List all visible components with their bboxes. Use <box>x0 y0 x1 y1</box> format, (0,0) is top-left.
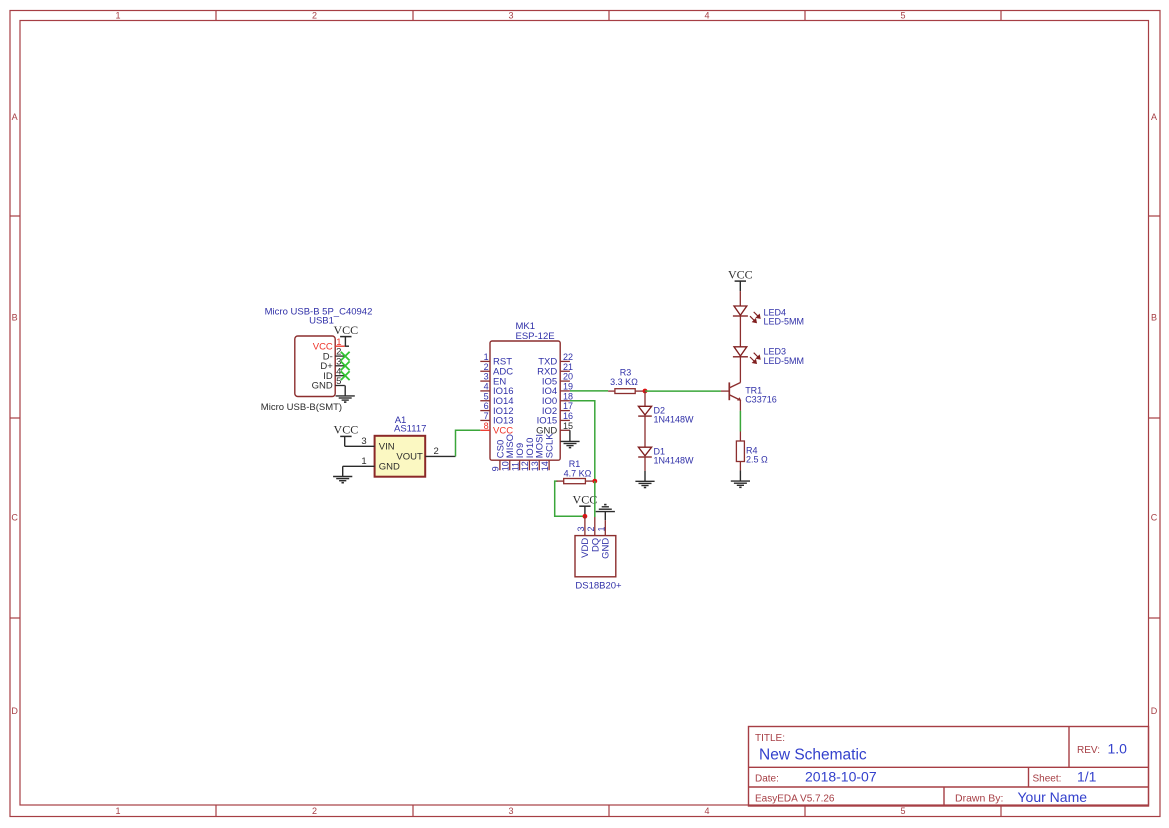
resistor R3 body <box>615 389 635 394</box>
wire emitter to R4 <box>739 411 741 432</box>
svg-text:Micro USB-B(SMT): Micro USB-B(SMT) <box>261 402 342 413</box>
LED LED4 <box>733 306 748 316</box>
MK1 pin 3 stub <box>480 380 490 382</box>
svg-text:VCC: VCC <box>333 323 358 337</box>
R4 top lead <box>739 432 741 442</box>
svg-text:1.0: 1.0 <box>1108 741 1128 757</box>
svg-text:EasyEDA V5.7.26: EasyEDA V5.7.26 <box>755 794 835 805</box>
svg-text:8: 8 <box>484 421 489 431</box>
MK1 pin 6 stub <box>480 410 490 412</box>
svg-text:2: 2 <box>586 526 596 531</box>
R4 bottom lead <box>739 462 741 471</box>
wire MK1 IO4 to R3 <box>570 390 608 392</box>
svg-text:2: 2 <box>312 11 317 21</box>
wire to ground <box>644 471 646 481</box>
transistor TR1 <box>729 382 741 400</box>
svg-text:D: D <box>11 706 18 716</box>
svg-text:2: 2 <box>434 446 439 457</box>
junction node R3 / D2 / TR1 base <box>643 389 648 394</box>
ground at D1 <box>635 481 654 487</box>
MK1 pin 9 stub <box>499 460 501 470</box>
wire ground to DS18B20 pin 1 <box>604 512 606 521</box>
wire junction to TR1 base <box>645 390 721 392</box>
resistor R4 body <box>736 441 744 462</box>
svg-text:LED-5MM: LED-5MM <box>764 317 805 327</box>
svg-text:5: 5 <box>484 391 489 401</box>
wire R1 left lead down to VDD node <box>555 481 585 516</box>
USB1 pin 3 no-connect cross <box>341 361 350 370</box>
svg-text:5: 5 <box>900 806 905 816</box>
MK1 pin 7 stub <box>480 419 490 421</box>
svg-text:5: 5 <box>336 376 341 387</box>
wire VCC flag stem to USB1 pin 1 <box>344 337 346 347</box>
svg-text:Sheet:: Sheet: <box>1033 773 1062 784</box>
wire TR1 emitter down <box>739 400 741 410</box>
svg-text:17: 17 <box>563 401 573 411</box>
module MK1 body <box>490 341 560 460</box>
svg-text:12: 12 <box>520 461 530 471</box>
svg-text:3: 3 <box>508 806 513 816</box>
svg-text:SCLK: SCLK <box>545 433 556 458</box>
svg-text:VCC: VCC <box>573 492 598 506</box>
svg-text:1: 1 <box>115 11 120 21</box>
svg-text:1/1: 1/1 <box>1077 769 1097 785</box>
svg-text:REV:: REV: <box>1077 745 1100 756</box>
svg-text:3: 3 <box>484 372 489 382</box>
svg-text:A: A <box>12 112 18 122</box>
svg-text:5: 5 <box>900 11 905 21</box>
svg-text:GND: GND <box>379 462 400 473</box>
svg-text:USB1: USB1 <box>309 315 334 326</box>
svg-text:1: 1 <box>115 806 120 816</box>
ground at MK1 pin 15 <box>560 441 579 447</box>
power flag VCC at USB1 pin 1 <box>333 323 358 337</box>
svg-text:2.5 Ω: 2.5 Ω <box>746 455 768 465</box>
svg-text:1: 1 <box>484 352 489 362</box>
junction node VDD <box>583 514 588 519</box>
wire DQ net down <box>594 481 596 517</box>
svg-text:1: 1 <box>361 456 366 467</box>
svg-text:7: 7 <box>484 411 489 421</box>
R3 left lead <box>608 390 615 392</box>
svg-text:19: 19 <box>563 382 573 392</box>
MK1 pin 16 stub <box>560 419 570 421</box>
svg-text:C: C <box>1151 513 1158 523</box>
svg-text:AS1117: AS1117 <box>394 424 426 435</box>
MK1 pin 19 stub <box>560 390 570 392</box>
svg-text:16: 16 <box>563 411 573 421</box>
MK1 pin 18 stub <box>560 400 570 402</box>
svg-text:3.3 KΩ: 3.3 KΩ <box>610 377 638 387</box>
svg-text:B: B <box>12 313 18 323</box>
svg-text:Date:: Date: <box>755 773 779 784</box>
wire LED4 to LED3 <box>739 316 741 347</box>
TR1 base stub <box>721 390 729 392</box>
svg-text:21: 21 <box>563 362 573 372</box>
MK1 pin 8 stub <box>480 429 490 431</box>
svg-text:3: 3 <box>508 11 513 21</box>
wire junction down to D2 <box>644 391 646 406</box>
sensor DS18B20 body <box>575 536 616 577</box>
LED4 light arrows <box>750 312 760 323</box>
MK1 pin 11 stub <box>519 460 521 470</box>
MK1 pin 12 stub <box>528 460 530 470</box>
MK1 pin 5 stub <box>480 400 490 402</box>
svg-text:15: 15 <box>563 421 573 431</box>
svg-text:4: 4 <box>484 382 489 392</box>
wire LED3 to TR1 collector <box>739 357 741 383</box>
svg-text:3: 3 <box>576 526 586 531</box>
LED3 light arrows <box>750 353 760 364</box>
wire MK1 pin 15 down <box>569 430 571 441</box>
svg-text:GND: GND <box>312 381 333 392</box>
wire D2 to D1 <box>644 416 646 447</box>
svg-text:4: 4 <box>704 806 709 816</box>
svg-text:1N4148W: 1N4148W <box>654 455 695 465</box>
svg-text:4: 4 <box>704 11 709 21</box>
wire down to ground <box>342 466 344 476</box>
svg-text:Your Name: Your Name <box>1018 789 1088 805</box>
MK1 pin 14 stub <box>548 460 550 470</box>
svg-text:TITLE:: TITLE: <box>755 733 785 744</box>
regulator A1 body <box>375 436 426 477</box>
ground at A1 GND <box>333 477 352 483</box>
DS18B20 pin 2 stub (DQ) <box>594 517 596 536</box>
svg-text:C33716: C33716 <box>745 395 777 405</box>
svg-text:D: D <box>1151 706 1158 716</box>
svg-text:14: 14 <box>540 461 550 471</box>
svg-text:VIN: VIN <box>379 442 395 453</box>
wire D1 down <box>644 457 646 471</box>
MK1 pin 21 stub <box>560 370 570 372</box>
MK1 pin 10 stub <box>509 460 511 470</box>
svg-text:C: C <box>11 513 18 523</box>
power flag VCC at A1 VIN <box>334 423 359 437</box>
wire stub right of USB1 pin 1 <box>345 345 349 347</box>
wire VCC stem to VDD node <box>584 506 586 516</box>
MK1 pin 2 stub <box>480 370 490 372</box>
wire VCC to LED4 <box>739 291 741 306</box>
DS18B20 pin 3 stub (VDD) <box>584 516 586 535</box>
wire VCC to A1 pin 3 <box>345 445 375 447</box>
svg-text:1N4148W: 1N4148W <box>654 415 695 425</box>
R1 left lead <box>557 480 564 482</box>
svg-text:3: 3 <box>361 436 366 447</box>
ground at R4 <box>731 481 750 487</box>
wire R4 to ground <box>739 470 741 481</box>
power flag VCC at LED4 <box>728 267 753 281</box>
svg-text:VOUT: VOUT <box>396 452 423 463</box>
R3 right lead <box>635 390 645 392</box>
MK1 pin 22 stub <box>560 360 570 362</box>
ground at USB1 pin 5 <box>336 396 355 402</box>
USB1 pin 2 stub <box>335 355 345 357</box>
svg-text:6: 6 <box>484 401 489 411</box>
wire VOUT up to ESP VCC net <box>456 430 481 456</box>
svg-text:18: 18 <box>563 391 573 401</box>
USB1 pin 1 stub <box>335 345 345 347</box>
wire USB1 pin 5 to ground <box>344 386 346 396</box>
svg-text:VCC: VCC <box>334 423 359 437</box>
svg-text:10: 10 <box>501 461 511 471</box>
diode D1 <box>638 447 652 457</box>
svg-text:4.7 KΩ: 4.7 KΩ <box>564 468 592 478</box>
svg-text:A: A <box>1151 112 1157 122</box>
wire A1 pin 1 to ground <box>343 465 375 467</box>
svg-text:2018-10-07: 2018-10-07 <box>805 769 877 785</box>
wire VCC stem <box>739 281 741 291</box>
MK1 pin 20 stub <box>560 380 570 382</box>
svg-text:LED-5MM: LED-5MM <box>764 356 805 366</box>
junction node R1 / IO0 / DQ <box>592 479 597 484</box>
connector USB1 body <box>295 336 335 397</box>
svg-text:2: 2 <box>312 806 317 816</box>
MK1 pin 17 stub <box>560 410 570 412</box>
USB1 pin 4 stub <box>335 375 345 377</box>
svg-text:VCC: VCC <box>728 267 753 281</box>
power flag VCC at DS18B20 VDD <box>573 492 598 506</box>
svg-text:20: 20 <box>563 372 573 382</box>
MK1 pin 1 stub <box>480 360 490 362</box>
svg-text:GND: GND <box>601 538 612 559</box>
USB1 pin 3 stub <box>335 365 345 367</box>
ground at DS18B20 GND (flipped) <box>596 505 615 512</box>
svg-text:R3: R3 <box>620 367 632 377</box>
wire MK1 IO0 down to DS18B20 DQ <box>570 401 595 481</box>
svg-text:22: 22 <box>563 352 573 362</box>
svg-text:11: 11 <box>510 462 520 471</box>
resistor R1 body <box>564 479 586 484</box>
svg-text:13: 13 <box>530 461 540 471</box>
DS18B20 pin 1 stub (GND) <box>604 520 606 535</box>
svg-text:Drawn By:: Drawn By: <box>955 792 1003 804</box>
LED LED3 <box>733 347 748 357</box>
svg-text:B: B <box>1151 313 1157 323</box>
svg-text:9: 9 <box>491 466 501 471</box>
R1 right lead <box>585 480 594 482</box>
MK1 pin 13 stub <box>538 460 540 470</box>
USB1 pin 2 no-connect cross <box>341 352 350 361</box>
svg-text:2: 2 <box>484 362 489 372</box>
svg-text:1: 1 <box>596 526 606 531</box>
wire VCC stem down <box>344 436 346 446</box>
MK1 pin 15 stub <box>560 429 570 431</box>
USB1 pin 4 no-connect cross <box>341 371 350 380</box>
USB1 pin 5 stub <box>335 385 345 387</box>
svg-text:New Schematic: New Schematic <box>759 747 867 764</box>
wire A1 VOUT right <box>425 455 455 457</box>
MK1 pin 4 stub <box>480 390 490 392</box>
diode D2 <box>638 406 652 416</box>
svg-text:DS18B20+: DS18B20+ <box>575 580 622 591</box>
